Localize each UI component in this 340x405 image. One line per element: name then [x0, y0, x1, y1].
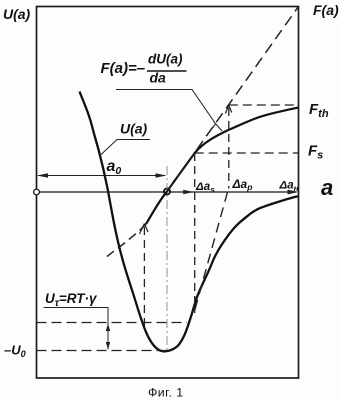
svg-text:F(a)=–: F(a)=–: [101, 60, 146, 77]
dashed horizontal Fth level: [229, 104, 299, 106]
dashed horizontal U-tau level: [37, 322, 188, 324]
svg-text:da: da: [150, 70, 167, 86]
dashed tangent to U right branch: [194, 192, 228, 313]
svg-text:F(a): F(a): [313, 2, 339, 18]
svg-text:dU(a): dU(a): [148, 52, 183, 67]
dashed horizontal -U0 level: [37, 350, 169, 352]
open arrowhead at leader tip: [206, 124, 222, 136]
origin circle on left border: [34, 189, 40, 195]
dash-dot thin vertical through a0 and minimum: [166, 166, 168, 351]
dashed vertical at Fs construction: [194, 153, 196, 313]
dashed tangent line at a0 up to frame corner: [167, 7, 299, 192]
F curve solid (through circle, flattening to Fth): [146, 108, 299, 224]
U-tau arrowhead down: [106, 342, 110, 350]
U(a) underline and leader: [100, 140, 150, 156]
dashed vertical at U-tau construction: [143, 227, 145, 326]
svg-text:U(a): U(a): [3, 6, 31, 22]
U curve left branch: [80, 92, 164, 352]
F curve dashed continuation below axis: [107, 224, 146, 257]
dashed vertical at Fth construction: [228, 108, 230, 189]
svg-text:Фиг. 1: Фиг. 1: [148, 386, 184, 400]
a axis line: [37, 191, 297, 193]
open arrowhead up at U-tau vertical: [140, 224, 149, 235]
circle marker at a0 on axis: [164, 189, 170, 195]
U-tau underline and stem: [44, 308, 109, 350]
U-tau arrowhead up: [106, 324, 110, 332]
dashed horizontal Fs level: [195, 152, 299, 154]
axis small arrowhead at Delta-a-s line: [183, 190, 194, 195]
formula underline and leader: [116, 90, 216, 124]
frame border: [37, 7, 299, 379]
U curve bottom and right branch: [164, 196, 299, 351]
svg-text:a: a: [321, 175, 333, 200]
a0 dimension line with arrows: [38, 175, 165, 177]
open arrowhead up at Fth vertical: [225, 106, 232, 114]
axis arrowhead right: [288, 190, 299, 195]
svg-text:U(a): U(a): [120, 121, 148, 137]
